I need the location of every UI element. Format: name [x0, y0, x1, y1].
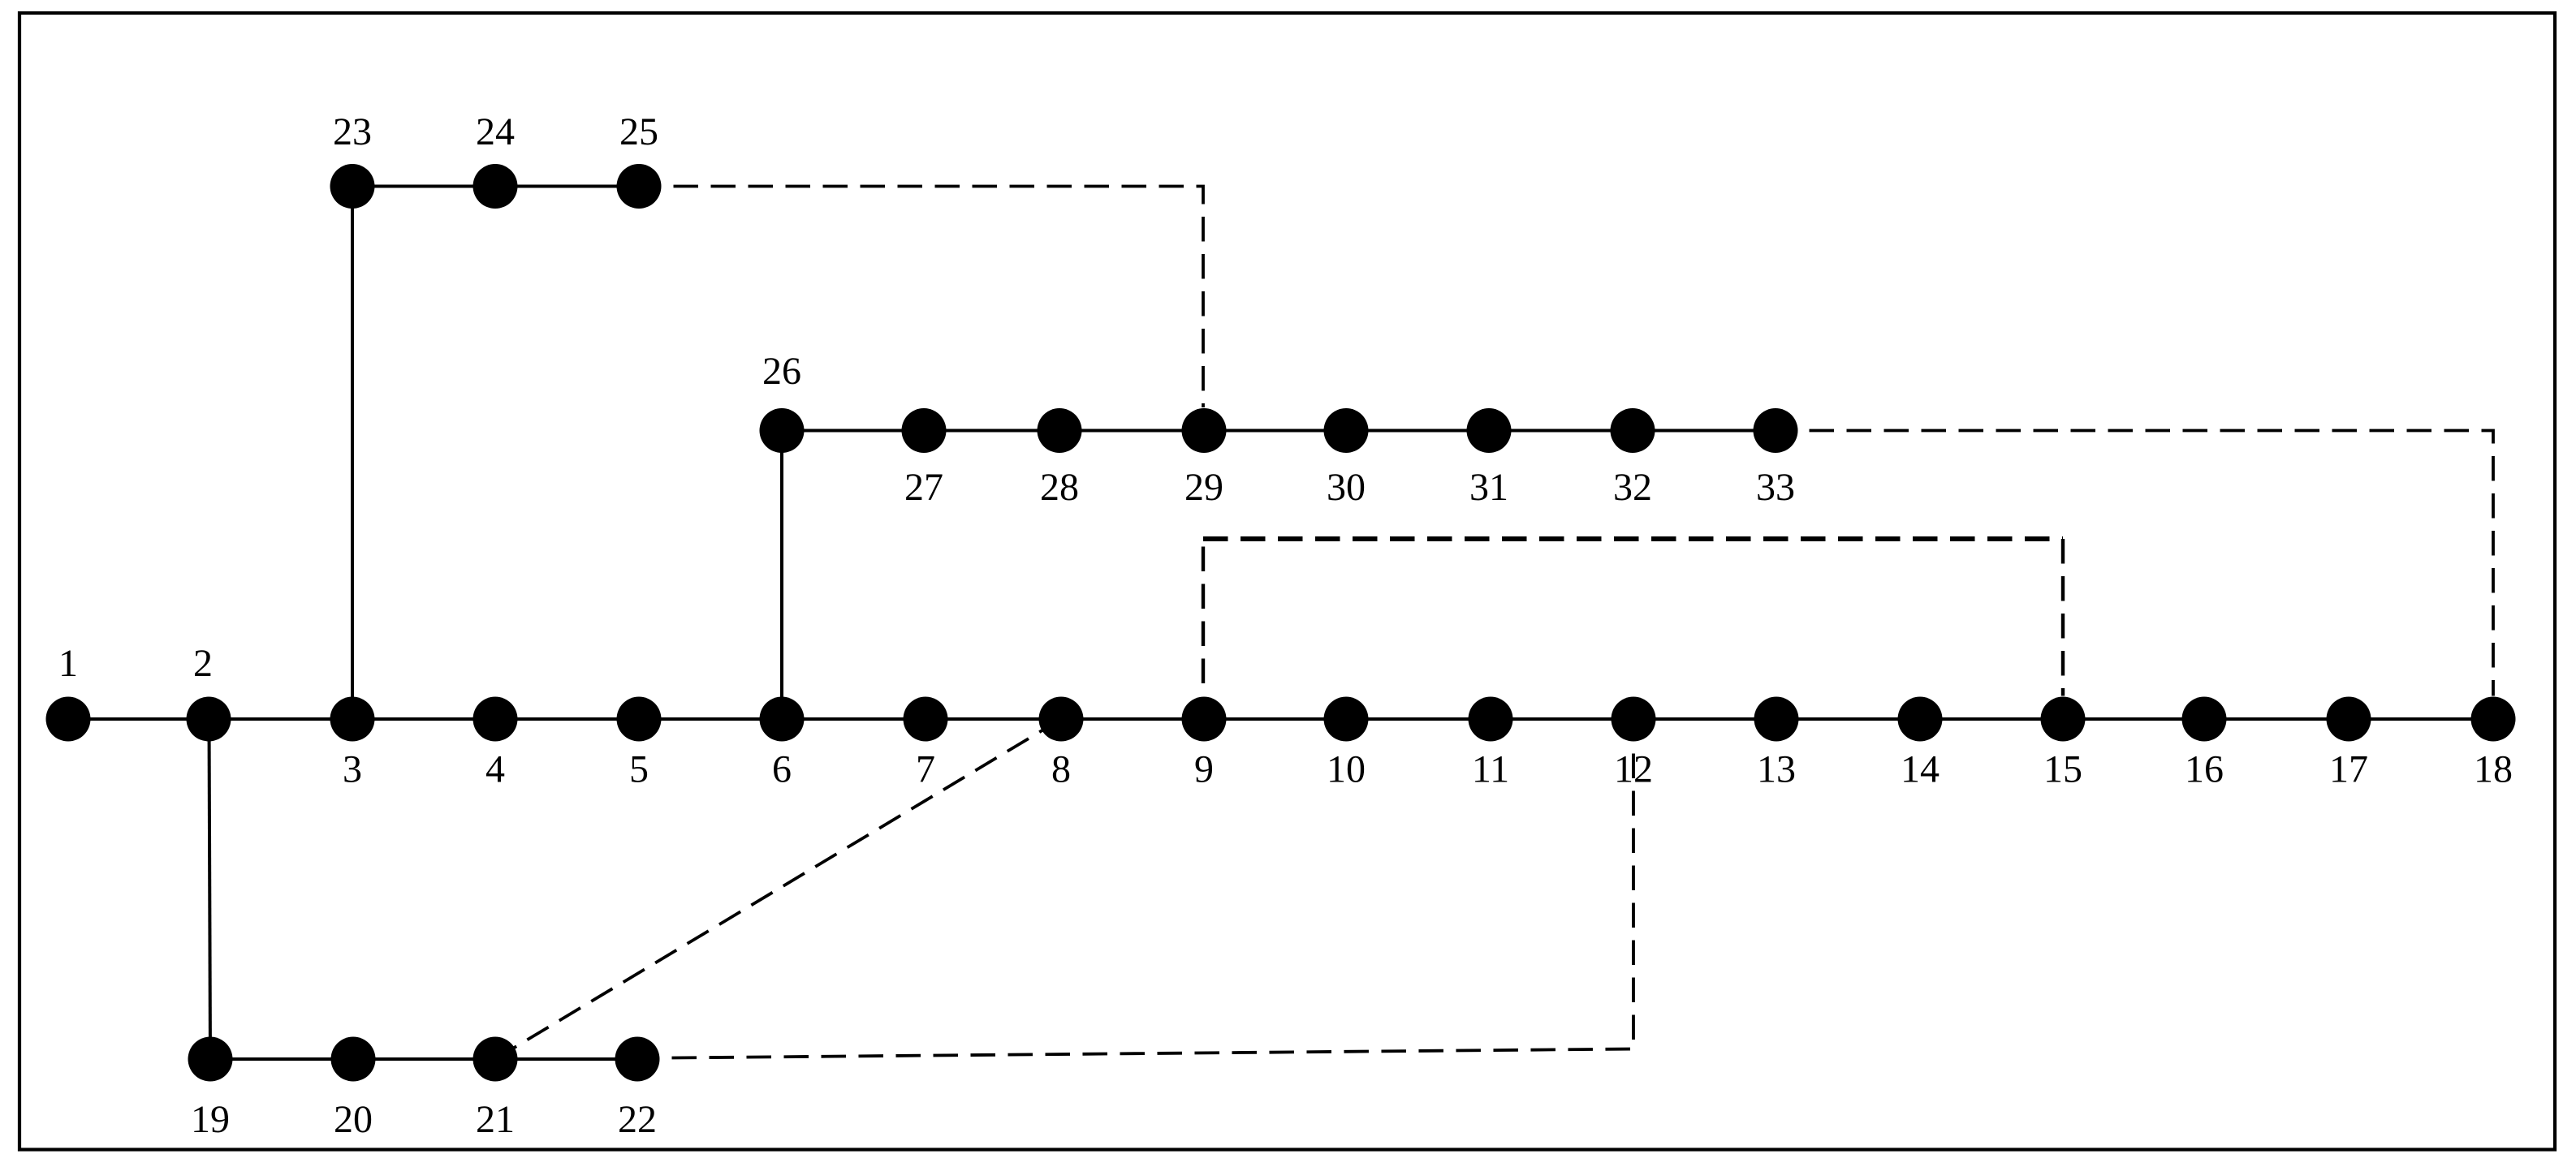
svg-text:28: 28 — [1040, 466, 1079, 509]
svg-text:20: 20 — [334, 1098, 373, 1141]
svg-text:2: 2 — [193, 642, 213, 685]
svg-text:23: 23 — [333, 110, 372, 153]
svg-text:11: 11 — [1472, 748, 1509, 791]
svg-text:10: 10 — [1327, 748, 1366, 791]
svg-text:14: 14 — [1901, 748, 1940, 791]
svg-text:8: 8 — [1051, 748, 1071, 791]
svg-text:1: 1 — [58, 642, 78, 685]
svg-text:22: 22 — [618, 1098, 657, 1141]
svg-text:12: 12 — [1614, 748, 1653, 791]
svg-text:21: 21 — [476, 1098, 515, 1141]
svg-text:13: 13 — [1757, 748, 1796, 791]
svg-text:32: 32 — [1613, 466, 1652, 509]
svg-text:29: 29 — [1184, 466, 1223, 509]
svg-text:30: 30 — [1327, 466, 1366, 509]
svg-text:19: 19 — [191, 1098, 230, 1141]
svg-text:25: 25 — [619, 110, 658, 153]
svg-text:33: 33 — [1756, 466, 1795, 509]
svg-text:6: 6 — [772, 748, 792, 791]
svg-text:27: 27 — [904, 466, 943, 509]
svg-text:31: 31 — [1469, 466, 1508, 509]
svg-text:18: 18 — [2474, 748, 2513, 791]
svg-text:26: 26 — [762, 350, 801, 393]
svg-text:15: 15 — [2043, 748, 2082, 791]
svg-text:4: 4 — [485, 748, 505, 791]
svg-text:7: 7 — [916, 748, 935, 791]
svg-text:17: 17 — [2329, 748, 2368, 791]
svg-text:5: 5 — [629, 748, 649, 791]
svg-text:24: 24 — [476, 110, 515, 153]
svg-text:3: 3 — [343, 748, 362, 791]
svg-text:16: 16 — [2185, 748, 2224, 791]
svg-text:9: 9 — [1194, 748, 1214, 791]
